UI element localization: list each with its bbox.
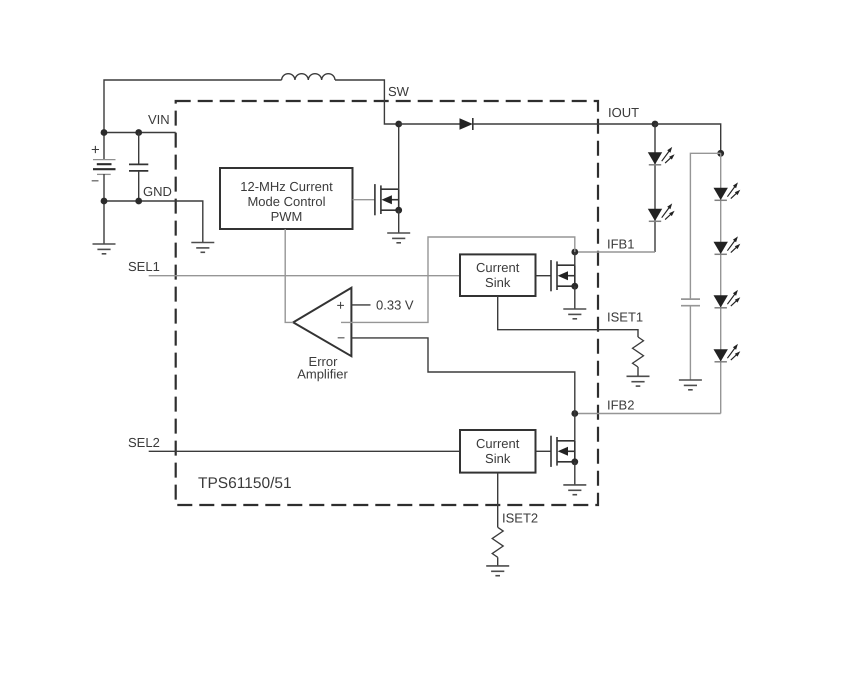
node: right string top [717,150,724,157]
LED D2 [648,147,675,165]
svg-text:Current: Current [476,260,520,275]
wire: sink2 to ISET2 [497,473,499,528]
ground: ISET2 [486,566,509,576]
svg-text:+: + [337,297,345,313]
current sink 1 box [460,254,536,296]
wire: R2 to ground [497,557,499,566]
error amplifier U1 [293,288,351,356]
node IOUT [652,121,659,128]
ground: Q3 source [563,485,586,495]
capacitor C2 output [681,299,700,380]
node IFB1 [571,249,578,256]
svg-text:12-MHz Current: 12-MHz Current [240,179,333,194]
wire: inductor to SW node [335,80,399,124]
LED D4 [714,182,741,200]
svg-text:+: + [91,142,100,159]
battery BT1 [91,142,116,189]
svg-text:0.33 V: 0.33 V [376,298,414,313]
svg-text:Current: Current [476,436,520,451]
svg-text:−: − [337,330,345,346]
capacitor C1 input [129,133,148,202]
node SW [395,121,402,128]
ground: ISET1 [627,376,650,386]
LED D6 [714,290,741,308]
wire: IFB1 feedback to error amp (gray) [341,237,575,322]
svg-text:ISET1: ISET1 [607,310,643,325]
wire: GND net [104,201,203,243]
wire: error amp output to PWM (gray) [285,229,293,322]
ground: GND pin [191,243,214,253]
svg-text:VIN: VIN [148,112,170,127]
svg-text:SW: SW [388,84,410,99]
wire: SW to diode [399,123,460,125]
wire: left LED string [654,124,656,252]
svg-text:Mode Control: Mode Control [247,194,325,209]
ground: battery [93,244,116,254]
wire: IOUT to right LED string top [655,124,721,153]
label Error Amplifier [297,354,348,382]
node IFB2 [571,410,578,417]
wire: sink1 to ISET1 [498,296,638,337]
wire: diode to IOUT [473,123,655,125]
wire: R1 to ground [637,367,639,376]
wire: VIN stub [104,132,176,134]
wire SEL1 (gray) [149,275,460,277]
LED D3 [648,203,675,221]
svg-text:SEL2: SEL2 [128,435,160,450]
ground: output capacitor [679,380,702,390]
node: Q3 source [571,458,578,465]
resistor R2 ISET2 [492,527,503,557]
wire: left string to IFB1 (gray) [575,251,655,253]
svg-text:GND: GND [143,184,172,199]
diode D1 [460,118,473,130]
node: Q1 source [395,207,402,214]
dashed IC boundary TPS61150/51 [176,101,598,505]
LED D5 [714,236,741,254]
node: Q2 source [571,283,578,290]
svg-text:TPS61150/51: TPS61150/51 [198,475,292,492]
ground: Q2 source [563,309,586,319]
svg-text:Sink: Sink [485,275,511,290]
wire: Q1 source to ground [398,210,400,233]
transistor Q3 current sink 2 [551,436,575,467]
node: VIN at battery [101,129,108,136]
inductor L1 [282,74,335,80]
wire: 0.33V reference stub [351,304,370,306]
LED D7 [714,344,741,362]
wire: Q3 source to ground [574,462,576,485]
wire: right string bottom to IFB2 (gray) [575,413,721,415]
svg-text:IOUT: IOUT [608,105,639,120]
ground: Q1 source [387,233,410,243]
wire: right LED string (gray) [720,153,722,413]
svg-text:Amplifier: Amplifier [297,367,348,382]
wire: Q2 drain to IFB1 [574,252,576,265]
svg-text:−: − [91,173,99,189]
svg-text:SEL1: SEL1 [128,259,160,274]
node: VIN at capacitor [135,129,142,136]
node: GND at capacitor [135,198,142,205]
wire: Q1 drain to SW node [398,124,400,189]
current sink 2 box [460,430,536,473]
svg-text:PWM: PWM [271,209,303,224]
wire: sink2 to Q3 gate [536,450,552,452]
wire: node to output capacitor (gray) [690,153,720,299]
resistor R1 ISET1 [633,337,644,367]
PWM control block [220,168,353,229]
svg-text:ISET2: ISET2 [502,511,538,526]
wire SEL2 [149,450,460,452]
svg-text:IFB1: IFB1 [607,237,634,252]
wire: Q2 source to ground [574,286,576,309]
svg-text:Sink: Sink [485,451,511,466]
transistor Q1 power switch [375,184,399,215]
node: GND at battery [101,198,108,205]
wire: Q3 drain to IFB2 [574,414,576,441]
wire: sink1 to Q2 gate [536,275,552,277]
wire: battery top to inductor [104,80,282,160]
wire: battery minus to ground [103,174,105,244]
wire: error amp inverting input to IFB2 [351,338,574,414]
svg-text:IFB2: IFB2 [607,398,634,413]
transistor Q2 current sink 1 [551,260,575,291]
wire: PWM gate (gray) [353,199,375,201]
